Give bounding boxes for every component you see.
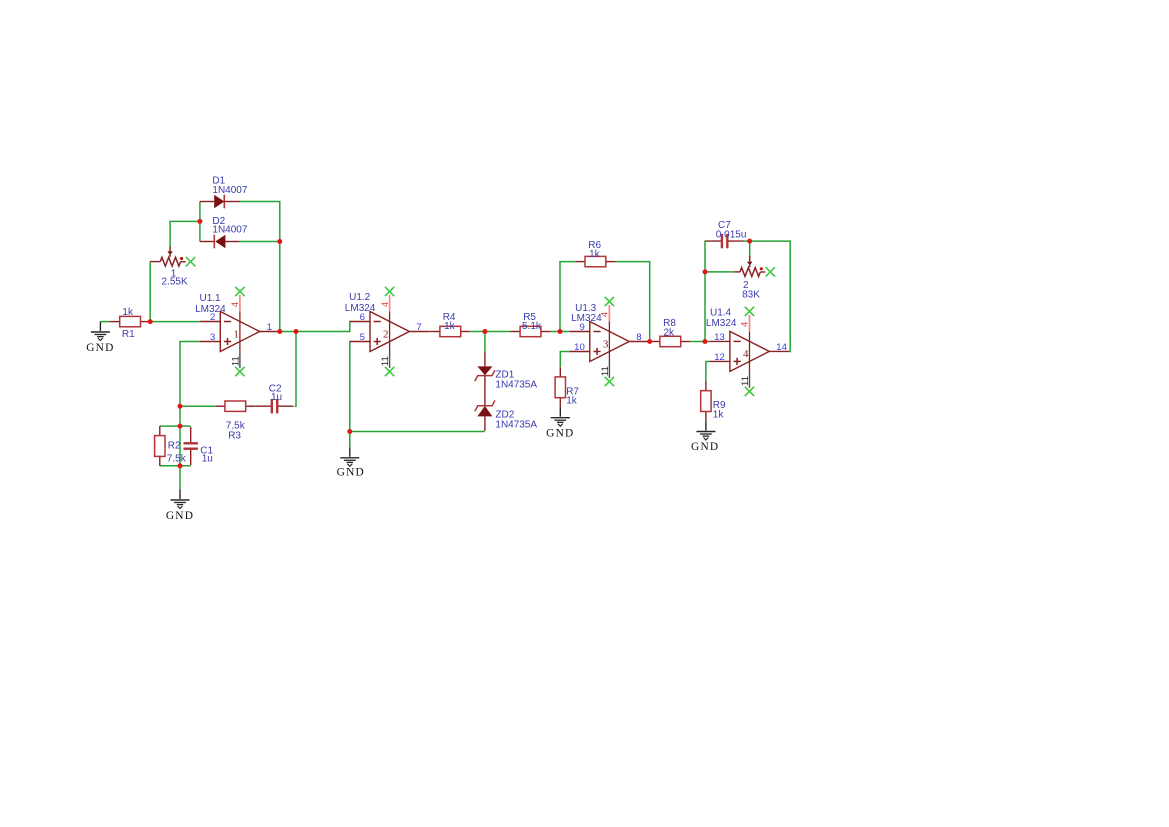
svg-text:12: 12 <box>714 352 725 363</box>
svg-text:2k: 2k <box>664 328 676 339</box>
svg-text:1k: 1k <box>122 307 134 318</box>
svg-text:0.015u: 0.015u <box>716 229 747 240</box>
svg-text:3: 3 <box>603 338 609 350</box>
svg-text:13: 13 <box>714 332 725 343</box>
svg-text:2: 2 <box>383 328 389 340</box>
svg-text:GND: GND <box>337 466 365 478</box>
svg-text:83K: 83K <box>742 290 760 301</box>
svg-text:8: 8 <box>636 332 641 343</box>
svg-text:1N4007: 1N4007 <box>212 185 247 196</box>
svg-text:GND: GND <box>546 428 574 440</box>
svg-text:4: 4 <box>230 302 241 307</box>
svg-text:1N4735A: 1N4735A <box>495 420 537 431</box>
svg-text:10: 10 <box>574 342 585 353</box>
svg-text:11: 11 <box>600 366 611 376</box>
svg-text:4: 4 <box>740 322 751 327</box>
svg-text:U1.1: U1.1 <box>200 293 222 304</box>
svg-text:GND: GND <box>166 510 194 522</box>
svg-text:1k: 1k <box>566 396 578 407</box>
svg-text:5.1k: 5.1k <box>522 321 542 332</box>
svg-text:1u: 1u <box>271 392 282 403</box>
svg-text:R2: R2 <box>168 441 181 452</box>
svg-text:1u: 1u <box>202 454 213 465</box>
svg-text:4: 4 <box>380 302 391 307</box>
svg-text:R3: R3 <box>228 430 241 441</box>
svg-text:2.55K: 2.55K <box>162 276 188 287</box>
svg-text:GND: GND <box>691 441 719 453</box>
svg-text:1: 1 <box>267 322 272 333</box>
svg-text:3: 3 <box>210 332 215 343</box>
svg-text:LM324: LM324 <box>345 303 376 314</box>
svg-text:R1: R1 <box>122 329 135 340</box>
svg-text:LM324: LM324 <box>706 318 737 329</box>
svg-text:14: 14 <box>776 342 787 353</box>
svg-text:1k: 1k <box>444 321 456 332</box>
svg-text:11: 11 <box>380 356 391 366</box>
svg-text:GND: GND <box>86 342 114 354</box>
svg-text:5: 5 <box>360 332 365 343</box>
svg-text:U1.2: U1.2 <box>349 292 371 303</box>
svg-text:U1.4: U1.4 <box>710 308 732 319</box>
svg-text:1: 1 <box>233 328 239 340</box>
svg-text:7: 7 <box>416 322 421 333</box>
svg-text:1N4735A: 1N4735A <box>495 379 537 390</box>
svg-text:7.5k: 7.5k <box>167 454 187 465</box>
svg-text:4: 4 <box>743 348 749 360</box>
svg-text:LM324: LM324 <box>571 313 602 324</box>
svg-text:1N4007: 1N4007 <box>212 225 247 236</box>
svg-text:LM324: LM324 <box>195 304 226 315</box>
svg-text:11: 11 <box>231 356 242 366</box>
svg-text:11: 11 <box>740 376 751 386</box>
svg-text:1k: 1k <box>589 249 601 260</box>
svg-text:1k: 1k <box>713 409 725 420</box>
